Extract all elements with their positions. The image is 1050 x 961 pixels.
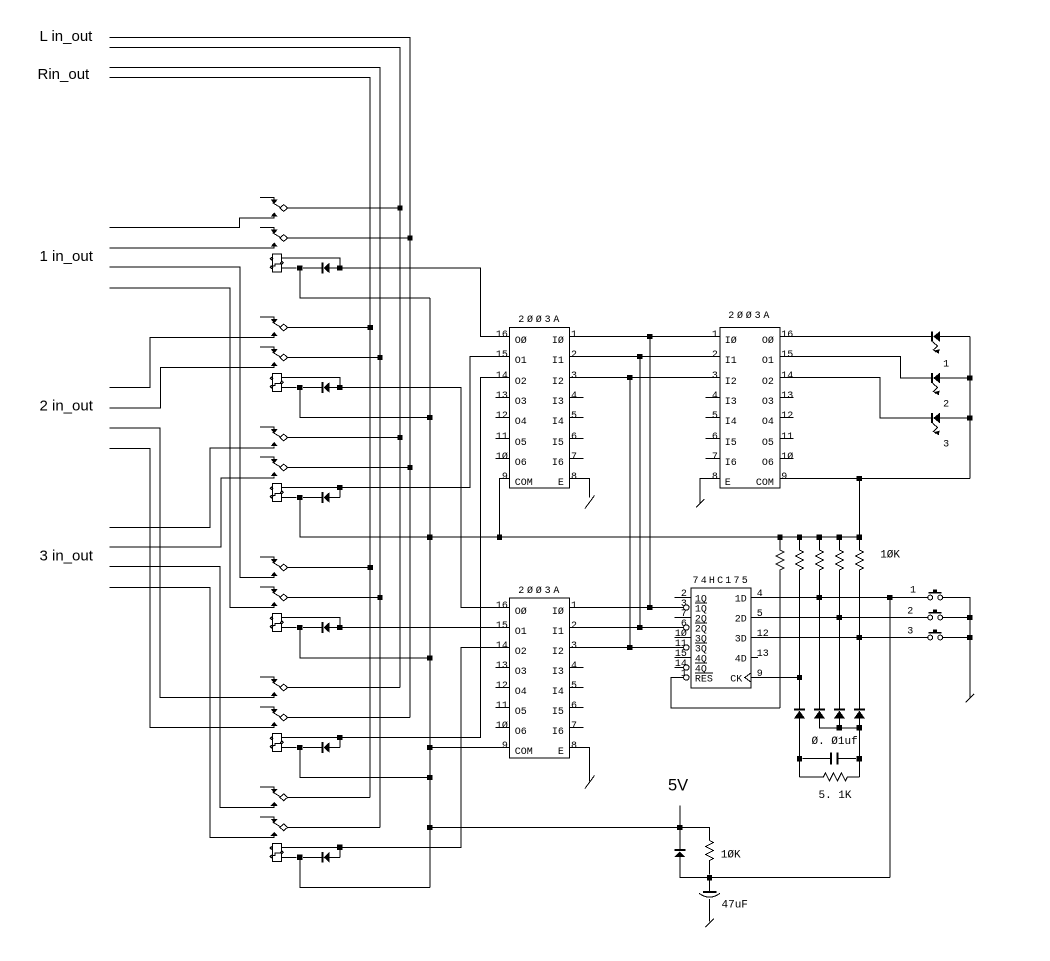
svg-text:O2: O2	[762, 377, 774, 388]
junction resistor R4 at bus	[837, 535, 842, 540]
switch S6B lower throw arrowhead	[271, 832, 278, 836]
svg-text:2: 2	[907, 607, 913, 618]
switch S3B lower throw arrowhead	[271, 472, 278, 476]
svg-text:I2: I2	[552, 377, 564, 388]
junction K3 drive node	[337, 485, 342, 490]
switch S3A upper throw contact	[260, 427, 274, 429]
wire L in_out line 1 (net L1)	[110, 38, 411, 718]
relay K5 coil pin diamond right	[281, 741, 284, 744]
LED LED3 triangle	[933, 413, 940, 423]
diode D at x858 cathode bar	[854, 709, 865, 711]
wire L in_out line 2 (net L2)	[110, 48, 401, 688]
LED LED2 triangle	[933, 373, 940, 383]
switch S4A upper throw contact	[260, 557, 274, 559]
svg-text:2: 2	[943, 400, 949, 411]
capacitor C2 (47uF)	[709, 878, 711, 892]
IC U4 (74HC175) body	[691, 588, 751, 688]
svg-text:9: 9	[502, 741, 508, 752]
junction switch S1A output to vertical	[397, 205, 402, 210]
junction bus at +5V rail	[427, 535, 432, 540]
svg-text:2: 2	[712, 350, 718, 361]
switch S4B pole diamond	[280, 594, 288, 601]
wire U4 RES pin 1 to R1	[671, 678, 780, 708]
junction button 3 at ground bus	[967, 635, 972, 640]
junction K2 drive node	[337, 385, 342, 390]
switch S3B upper throw contact	[260, 457, 274, 459]
svg-text:CK: CK	[730, 675, 742, 686]
junction I1 at U2 pin 2	[637, 625, 642, 630]
diode D3 cathode bar	[321, 492, 323, 503]
svg-text:O1: O1	[515, 627, 527, 638]
svg-text:7: 7	[571, 452, 577, 463]
resistor R4 (10K)	[835, 537, 843, 709]
diode D at x838 triangle	[834, 711, 845, 719]
svg-text:I1: I1	[552, 627, 564, 638]
ground at U3 E	[696, 499, 704, 507]
wire relay K4 coil terminal B	[282, 627, 297, 629]
junction K1 drive node	[337, 265, 342, 270]
ground at button bus	[966, 694, 975, 703]
wire relay K3 coil terminal B	[282, 497, 297, 499]
junction resistor R5 at bus	[857, 535, 862, 540]
relay K3 coil body	[273, 484, 282, 502]
junction power-on reset node	[707, 875, 712, 880]
U4 pin 1 bubble	[684, 675, 689, 680]
resistor R3 (10K)	[815, 537, 823, 709]
svg-text:12: 12	[757, 629, 769, 640]
U4 pin 7 stub	[675, 617, 691, 619]
button 2 cap bar	[929, 612, 942, 614]
switch S3A lower throw arrowhead	[271, 442, 278, 446]
diode D5 triangle	[324, 742, 330, 753]
junction +5V rail at 5V supply line	[427, 825, 432, 830]
svg-text:11: 11	[781, 432, 793, 443]
svg-text:I3: I3	[725, 397, 737, 408]
wire K1 node to diode D1 anode	[303, 267, 321, 269]
switch S1B pole diamond	[280, 235, 288, 242]
switch S5B blade	[273, 712, 281, 717]
svg-text:O3: O3	[515, 667, 527, 678]
svg-text:13: 13	[757, 649, 769, 660]
switch S2A pole diamond	[280, 324, 288, 331]
junction +5V rail at U2 COM line	[427, 745, 432, 750]
wire switch S5A output	[288, 687, 400, 689]
svg-text:5: 5	[571, 681, 577, 692]
junction K5 return at rail	[427, 775, 432, 780]
wire U2 I2 to U4 pin 11	[570, 647, 684, 649]
wire Rin_out line 2 (net R2)	[110, 78, 371, 798]
U1 pin 13 stub	[496, 397, 510, 399]
wire button 2 to ground bus	[943, 617, 970, 619]
wire switch S4B output	[288, 597, 380, 599]
svg-text:1ØK: 1ØK	[880, 550, 900, 562]
svg-text:O1: O1	[515, 356, 527, 367]
wire 1 in_out d to S4B throw	[110, 288, 275, 608]
wire U1 I0 to U3 pin 1	[570, 336, 720, 338]
switch S4B upper throw arrowhead	[271, 589, 278, 593]
svg-text:I6: I6	[552, 458, 564, 469]
wire K2 return to +5V rail	[300, 388, 430, 418]
svg-text:12: 12	[496, 411, 508, 422]
switch S5B upper throw contact	[260, 707, 274, 709]
button 3 cap bar	[929, 632, 942, 634]
switch S3B pole diamond	[280, 464, 288, 471]
svg-text:O3: O3	[762, 397, 774, 408]
diode D5 cathode bar	[321, 742, 323, 753]
U4 label 2Q-bar overline	[695, 622, 707, 624]
switch S6B blade	[273, 822, 281, 827]
svg-text:2: 2	[571, 350, 577, 361]
junction I2 at U2 pin 3	[627, 645, 632, 650]
svg-text:I2: I2	[725, 377, 737, 388]
svg-text:O5: O5	[515, 707, 527, 718]
wire LED cathode bus	[969, 337, 971, 479]
wire relay K1 coil terminal A	[282, 258, 340, 268]
LED LED2 arrow	[932, 383, 937, 393]
svg-text:2ØØ3A: 2ØØ3A	[728, 310, 772, 322]
switch S2B blade	[273, 352, 281, 357]
switch S1A blade	[273, 203, 281, 208]
svg-text:O2: O2	[515, 647, 527, 658]
button 2 actuator	[933, 610, 937, 612]
wire K4 drive to U2 pin 15	[340, 627, 510, 629]
wire U2 COM pin 9 to +5V rail	[430, 747, 510, 749]
U2 pin 6 stub	[570, 707, 584, 709]
svg-text:5: 5	[712, 411, 718, 422]
junction U1 COM at bus	[497, 535, 502, 540]
svg-text:O6: O6	[515, 458, 527, 469]
svg-text:COM: COM	[515, 478, 533, 489]
wire diode D6 anode lead	[330, 856, 340, 858]
U3 pin 12 stub	[780, 417, 794, 419]
wire diode D1 anode lead	[330, 267, 340, 269]
wire relay K5 coil terminal A	[282, 738, 340, 748]
svg-text:5V: 5V	[668, 777, 688, 795]
relay K5 coil pin diamond upper-left	[270, 737, 273, 740]
junction R4 at 2D line	[837, 615, 842, 620]
wire LED LED2 to cathode bus	[940, 377, 970, 379]
junction relay K1 terminal B node	[297, 265, 302, 270]
switch S2A lower throw arrowhead	[271, 332, 278, 336]
junction CK at R2	[797, 675, 802, 680]
svg-text:3: 3	[907, 627, 913, 638]
U2 pin 11 stub	[496, 707, 510, 709]
wire 1 in_out b to S1B throw	[110, 246, 275, 248]
wire U3 O0 to LED1	[780, 336, 931, 338]
svg-text:2D: 2D	[735, 615, 747, 626]
wire diode D8 stem	[838, 718, 840, 727]
wire switch S2A output	[288, 327, 370, 329]
wire switch S1B output	[288, 237, 410, 239]
svg-text:1 in_out: 1 in_out	[40, 248, 94, 265]
LED LED1 triangle	[933, 331, 940, 341]
relay K4 coil body	[273, 614, 282, 632]
wire relay K3 coil terminal A	[282, 488, 340, 498]
wire K6 drive to U2 pin 14	[340, 648, 510, 848]
U4 label 4Q-bar overline	[695, 662, 707, 664]
junction I0 at U2 pin 1	[647, 605, 652, 610]
relay K5 coil body	[273, 734, 282, 752]
wire C1 right lead	[837, 758, 856, 760]
svg-text:8: 8	[571, 741, 577, 752]
U4 4D pin 13 stub	[751, 657, 758, 659]
diode D at x818 cathode bar	[814, 709, 825, 711]
switch S5A upper throw contact	[260, 677, 274, 679]
relay K4 coil pin diamond lower-left	[270, 625, 273, 628]
svg-text:4: 4	[712, 391, 718, 402]
svg-text:I5: I5	[725, 438, 737, 449]
U1 pin 7 stub	[570, 458, 584, 460]
switch S3B blade	[273, 462, 281, 467]
svg-text:16: 16	[781, 330, 793, 341]
svg-text:16: 16	[496, 601, 508, 612]
wire relay K2 coil terminal A	[282, 378, 340, 388]
junction K4 return at rail	[427, 655, 432, 660]
junction switch S3B output to vertical	[407, 465, 412, 470]
switch S1B lower throw arrowhead	[271, 243, 278, 247]
junction anode bus at D9	[857, 725, 862, 730]
switch S4A blade	[273, 562, 281, 567]
svg-text:6: 6	[571, 432, 577, 443]
U2 pin 7 stub	[570, 727, 584, 729]
relay K5 coil pin diamond lower-left	[270, 745, 273, 748]
relay K4 coil pin diamond right	[281, 621, 284, 624]
switch S4B upper throw contact	[260, 587, 274, 589]
wire I1 tap down to U2 pin 2	[639, 357, 641, 628]
svg-text:12: 12	[781, 411, 793, 422]
wire 5V supply line	[430, 828, 710, 841]
svg-text:74HC175: 74HC175	[693, 576, 750, 587]
svg-text:1: 1	[910, 585, 916, 596]
svg-text:5: 5	[757, 609, 763, 620]
junction K5 drive node	[337, 735, 342, 740]
wire LED LED3 to cathode bus	[940, 417, 970, 419]
diode D at x799 triangle	[794, 711, 805, 719]
IC U3 (2003A) body	[720, 328, 780, 489]
U3 pin 11 stub	[780, 438, 794, 440]
LED LED1 cathode bar	[931, 331, 933, 341]
switch S2A upper throw arrowhead	[271, 319, 278, 323]
wire K2 drive to U2 pin 16	[340, 388, 510, 608]
relay K6 coil pin diamond upper-left	[270, 847, 273, 850]
switch S3B upper throw arrowhead	[271, 459, 278, 463]
wire K2 node to diode D2 anode	[303, 387, 321, 389]
wire U3 O1 to LED2	[780, 357, 931, 379]
svg-text:2ØØ3A: 2ØØ3A	[518, 585, 562, 597]
wire 1 in_out c to S4A throw	[110, 267, 275, 578]
junction K4 drive node	[337, 625, 342, 630]
diode D at x858 triangle	[854, 711, 865, 719]
svg-text:O4: O4	[515, 687, 527, 698]
U4 label 1Q-bar overline	[695, 602, 707, 604]
wire 3 in_out a to S3A throw	[110, 446, 275, 527]
wire U1 I2 to U3 pin 3	[570, 377, 720, 379]
wire U2 I1 to U4 pin 6	[570, 627, 684, 629]
wire button 3 to ground bus	[943, 637, 970, 639]
diode D at x799 cathode bar	[794, 709, 805, 711]
wire K3 drive to U1 pin 15	[340, 357, 510, 488]
relay K5 coil inner link	[270, 743, 281, 745]
svg-text:3: 3	[943, 440, 949, 451]
U2 pin 12 stub	[496, 687, 510, 689]
switch S4A upper throw arrowhead	[271, 559, 278, 563]
relay K2 coil inner link	[270, 383, 281, 385]
svg-text:1: 1	[943, 360, 949, 371]
U1 pin 5 stub	[570, 417, 584, 419]
LED LED1 arrow	[932, 342, 937, 352]
svg-text:1: 1	[571, 601, 577, 612]
wire K4 node to diode D4 anode	[303, 627, 321, 629]
wire Rin_out line 1 (net R1)	[110, 68, 381, 828]
switch S2B lower throw arrowhead	[271, 362, 278, 366]
svg-text:I1: I1	[552, 356, 564, 367]
U4 pin 6 bubble	[684, 625, 689, 630]
switch S5A upper throw arrowhead	[271, 679, 278, 683]
switch S1A pole diamond	[280, 205, 288, 212]
wire U2 E pin 8 to ground	[570, 748, 590, 782]
svg-text:E: E	[558, 478, 564, 489]
svg-text:1Ø: 1Ø	[781, 451, 793, 463]
wire K5 return to +5V rail	[300, 748, 430, 778]
svg-text:O4: O4	[515, 417, 527, 428]
diode D2 cathode bar	[321, 382, 323, 393]
switch S4B blade	[273, 592, 281, 597]
relay K1 coil pin diamond lower-left	[270, 266, 273, 269]
U3 pin 13 stub	[780, 397, 794, 399]
U4 pin 11 bubble	[684, 645, 689, 650]
svg-text:8: 8	[712, 472, 718, 483]
wire relay K6 coil terminal B	[282, 856, 297, 858]
wire switch S3B output	[288, 467, 410, 469]
capacitor C1 plate right	[836, 753, 838, 765]
switch S4A pole diamond	[280, 564, 288, 571]
svg-text:I6: I6	[552, 727, 564, 738]
wire relay K5 coil terminal B	[282, 747, 297, 749]
switch S1B upper throw arrowhead	[271, 230, 278, 234]
resistor R1 (10K)	[776, 537, 784, 708]
U4 CK clock wedge	[745, 673, 751, 682]
switch S2A blade	[273, 322, 281, 327]
switch S6A lower throw arrowhead	[271, 802, 278, 806]
wire K3 return / pull-up bus	[300, 498, 860, 538]
svg-text:O5: O5	[515, 438, 527, 449]
U3 pin 6 stub	[706, 438, 720, 440]
wire 2 in_out b to S2B throw	[110, 366, 275, 408]
svg-text:I4: I4	[552, 417, 564, 428]
svg-text:O3: O3	[515, 397, 527, 408]
button 2 contact right	[938, 615, 943, 620]
relay K2 coil pin diamond lower-left	[270, 385, 273, 388]
wire 5V stub	[679, 806, 681, 828]
switch S2B pole diamond	[280, 354, 288, 361]
switch S4B lower throw arrowhead	[271, 602, 278, 606]
wire 1 in_out a to S1A throw	[110, 216, 275, 227]
U4 label RES-bar overline	[695, 672, 713, 674]
relay K1 coil inner link	[270, 264, 281, 266]
wire C1 left lead	[803, 758, 831, 760]
U1 pin 11 stub	[496, 438, 510, 440]
svg-text:14: 14	[496, 641, 508, 652]
svg-text:Rin_out: Rin_out	[38, 66, 91, 83]
wire U1 E pin 8 to ground	[570, 479, 590, 498]
junction R3 at 1D line	[817, 595, 822, 600]
diode D6 triangle	[324, 852, 330, 863]
wire U4 1D to button 1	[751, 597, 928, 599]
wire switch S2B output	[288, 357, 380, 359]
ground at U1 E	[585, 496, 595, 509]
wire diode D7 stem down	[799, 718, 801, 777]
svg-text:OØ: OØ	[515, 606, 527, 618]
wire U1 COM pin 9 to bus	[500, 479, 510, 538]
svg-text:O2: O2	[515, 377, 527, 388]
wire 2 in_out c to S5A throw	[110, 428, 275, 698]
wire reset node horizontal	[680, 877, 890, 879]
junction LED2 at cathode bus	[967, 375, 972, 380]
wire diode D3 anode lead	[330, 497, 340, 499]
button 1 cap bar	[929, 592, 942, 594]
U4 pin 14 stub	[675, 667, 684, 669]
relay K3 coil pin diamond lower-left	[270, 495, 273, 498]
IC U1 (2003A) body	[510, 328, 570, 489]
svg-text:4: 4	[757, 589, 763, 600]
svg-text:COM: COM	[756, 478, 774, 489]
U4 pin 14 bubble	[684, 665, 689, 670]
wire COM drop to pull-up bus	[858, 479, 860, 538]
junction switch S4A output to vertical	[367, 565, 372, 570]
svg-text:E: E	[558, 747, 564, 758]
junction R5 at 3D line	[857, 635, 862, 640]
U4 pin 10 stub	[675, 637, 691, 639]
junction anode bus at D8	[837, 725, 842, 730]
U2 pin 10 stub	[496, 727, 510, 729]
svg-text:IØ: IØ	[552, 606, 564, 618]
wire relay K1 coil terminal B	[282, 267, 297, 269]
svg-text:15: 15	[496, 350, 508, 361]
junction 1D line to CK feedback drop	[887, 595, 892, 600]
diode D11 at 5V	[679, 828, 681, 850]
junction resistor R3 at bus	[817, 535, 822, 540]
wire K6 return to +5V rail	[300, 858, 430, 888]
switch S5B pole diamond	[280, 714, 288, 721]
svg-text:7: 7	[571, 721, 577, 732]
junction K6 drive node	[337, 845, 342, 850]
svg-text:14: 14	[781, 371, 793, 382]
svg-text:2: 2	[571, 621, 577, 632]
svg-text:I1: I1	[725, 356, 737, 367]
U1 pin 10 stub	[496, 458, 510, 460]
svg-text:13: 13	[496, 391, 508, 402]
button 1 actuator	[933, 590, 937, 592]
svg-text:3: 3	[571, 371, 577, 382]
relay K6 coil pin diamond right	[281, 851, 284, 854]
svg-text:O6: O6	[515, 727, 527, 738]
wire 2 in_out a to S2A throw	[110, 336, 275, 388]
switch S6A upper throw contact	[260, 787, 274, 789]
svg-text:3 in_out: 3 in_out	[40, 548, 94, 565]
wire 3 in_out c to S6A throw	[110, 567, 275, 808]
svg-text:11: 11	[496, 701, 508, 712]
svg-text:COM: COM	[515, 747, 533, 758]
wire U1 I1 to U3 pin 2	[570, 356, 720, 358]
switch S1A upper throw contact	[260, 198, 274, 200]
capacitor C1 plate left	[830, 753, 832, 765]
wire relay K2 coil terminal B	[282, 387, 297, 389]
junction resistor R1 at bus	[777, 535, 782, 540]
junction C1 right lead	[857, 756, 862, 761]
svg-text:I5: I5	[552, 438, 564, 449]
relay K2 coil pin diamond right	[281, 381, 284, 384]
svg-text:9: 9	[781, 472, 787, 483]
